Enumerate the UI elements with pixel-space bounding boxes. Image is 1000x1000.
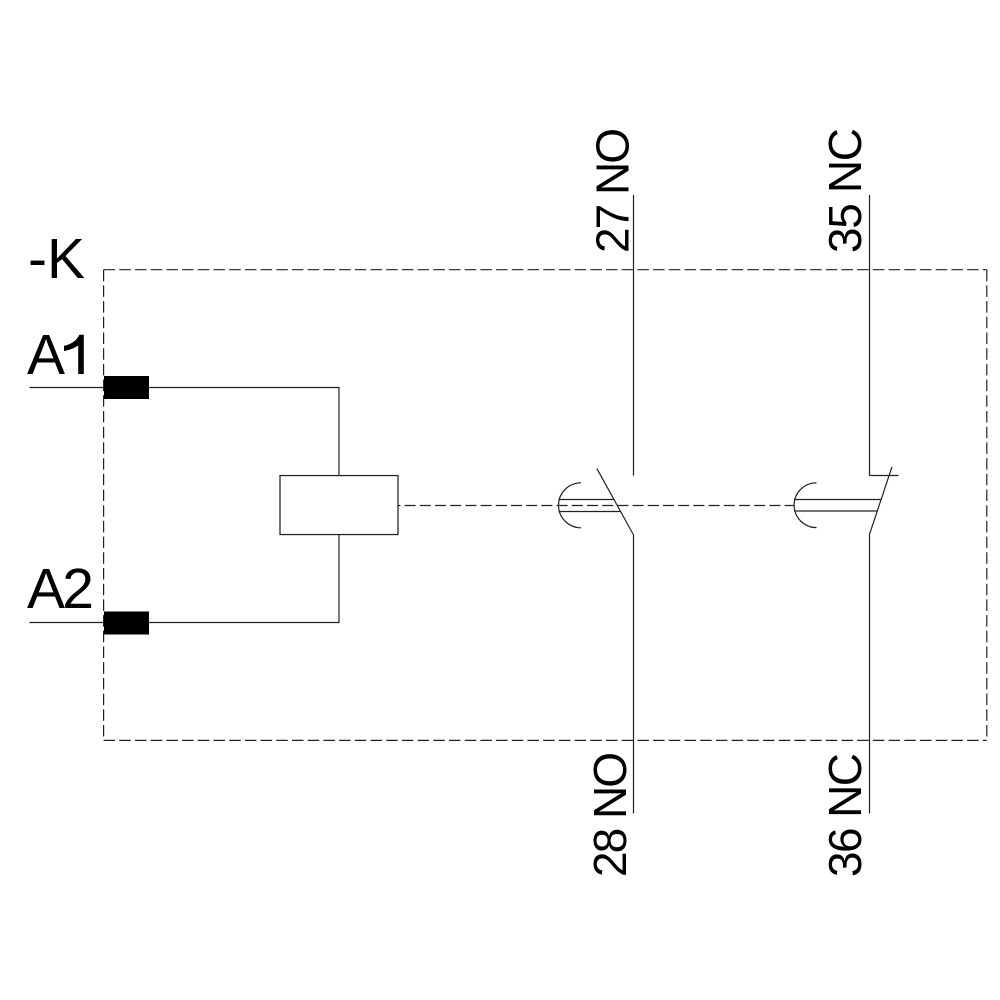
svg-text:36 NC: 36 NC <box>819 753 871 877</box>
svg-text:27 NO: 27 NO <box>586 128 638 253</box>
terminal A1 (filled block) <box>104 376 149 399</box>
contact 27/28 NO: fork line bottom <box>559 511 621 513</box>
contact 35/36 NC: top terminal wire 35 <box>869 195 871 476</box>
contact 35/36 NC: fork line top <box>794 499 881 501</box>
contact 27/28 NO: actuator fork arc <box>559 483 581 528</box>
contact 27/28 NO: bottom terminal wire 28 <box>633 534 635 814</box>
relay enclosure -K: left dashed edge <box>103 270 105 741</box>
contact 27/28 NO: fork line top <box>559 499 614 501</box>
contact 35/36 NC: bottom terminal wire 36 <box>869 534 871 814</box>
svg-text:-K: -K <box>28 227 85 291</box>
contact 35/36 NC: actuator fork arc <box>794 483 816 528</box>
contact 35/36 NC: moving blade <box>870 467 892 534</box>
relay enclosure -K: right dashed edge <box>986 270 988 741</box>
svg-text:35 NC: 35 NC <box>819 128 871 253</box>
mechanical actuator link (dashed) from coil to contacts <box>398 505 794 507</box>
label A1 <box>27 323 84 387</box>
contact 27/28 NO: top terminal wire 27 <box>633 195 635 476</box>
relay enclosure -K: top dashed edge <box>104 269 987 271</box>
contact 27/28 NO: moving blade <box>597 468 633 534</box>
svg-text:28 NO: 28 NO <box>584 752 636 877</box>
coil K (rectangle) <box>280 476 398 535</box>
terminal A2 (filled block) <box>104 612 149 635</box>
wire A1 lead and to coil top <box>30 388 340 476</box>
svg-text:A2: A2 <box>27 557 94 621</box>
contact 35/36 NC: fork line bottom <box>794 510 877 512</box>
relay enclosure -K: bottom dashed edge <box>104 739 987 741</box>
contact 35/36 NC: seat bar <box>870 475 899 477</box>
svg-text:A: A <box>27 323 65 387</box>
wire coil bottom to A2 lead <box>30 535 340 623</box>
